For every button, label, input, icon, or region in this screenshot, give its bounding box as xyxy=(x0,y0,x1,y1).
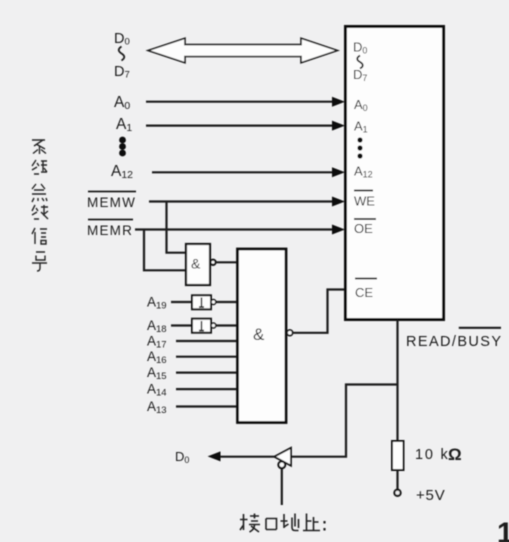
arrowhead A12 xyxy=(332,167,345,177)
wire A14 xyxy=(176,388,238,390)
wire MEMW xyxy=(149,200,334,202)
wire A15 xyxy=(176,372,238,374)
svg-text:A19: A19 xyxy=(147,295,167,312)
svg-text:D0: D0 xyxy=(114,31,130,48)
wire resistor to +5V terminal xyxy=(396,470,398,490)
char xian xyxy=(32,205,48,219)
svg-text:A18: A18 xyxy=(147,318,167,335)
wire U4 output xyxy=(219,456,274,458)
arrowhead A1 xyxy=(332,121,345,131)
wire MEMW tap down to gate U2 input 1 xyxy=(167,202,187,253)
wire enable down to interface-address label xyxy=(281,468,283,505)
svg-text:A15: A15 xyxy=(147,365,167,382)
memory chip U1 xyxy=(346,27,444,320)
char zong xyxy=(32,184,47,202)
svg-text:1: 1 xyxy=(497,518,509,542)
char zhi xyxy=(303,514,320,531)
svg-text:MEMW: MEMW xyxy=(87,195,136,210)
svg-text:D7: D7 xyxy=(114,64,130,81)
char hao xyxy=(32,252,47,271)
svg-text:READ/BUSY: READ/BUSY xyxy=(406,334,502,350)
svg-text:A13: A13 xyxy=(147,399,167,416)
wire A0 xyxy=(146,101,334,103)
char kou xyxy=(266,519,277,530)
wire branch to buffer input xyxy=(292,385,398,457)
svg-text:10 k: 10 k xyxy=(415,447,450,463)
caption: interface address (pseudo CJK strokes) xyxy=(240,514,325,533)
wire A17 xyxy=(176,340,238,342)
wire A1 xyxy=(146,124,334,126)
U5 output bubble xyxy=(211,300,216,305)
svg-text:A14: A14 xyxy=(147,382,167,399)
arrowhead D0 out xyxy=(208,451,221,461)
wire U6 to U3 xyxy=(216,324,238,326)
arrowhead A0 xyxy=(332,97,345,107)
squiggle between D0 and D7 (left) xyxy=(119,47,125,61)
wire MEMR xyxy=(135,228,334,230)
svg-text:A0: A0 xyxy=(114,94,130,112)
wire U2 output to U3 xyxy=(216,261,238,263)
svg-text:+5V: +5V xyxy=(416,487,446,504)
arrowhead MEMR xyxy=(332,225,345,235)
svg-text:MEMR: MEMR xyxy=(87,223,133,238)
svg-text:A16: A16 xyxy=(147,349,167,366)
wire U3 output to CE pin xyxy=(293,290,344,333)
svg-text:CE: CE xyxy=(355,285,373,300)
char xin xyxy=(32,228,47,244)
U3 output bubble xyxy=(287,330,293,336)
wire U5 to U3 xyxy=(216,301,238,303)
tri-state buffer U4 xyxy=(274,448,291,466)
NAND gate U2 (small &) xyxy=(186,244,210,285)
char tong xyxy=(32,160,47,174)
wire A16 xyxy=(176,356,238,358)
char xi (system) xyxy=(32,140,46,154)
colon xyxy=(323,521,325,531)
resistor R1 xyxy=(392,441,404,470)
ellipsis dots (chip address pins) xyxy=(357,137,362,158)
char di xyxy=(281,514,299,531)
svg-text:&: & xyxy=(253,325,265,344)
svg-text:D0: D0 xyxy=(175,449,189,465)
vertical caption: system bus signals (pseudo CJK strokes) xyxy=(32,140,48,271)
squiggle between D0 and D7 (chip) xyxy=(357,56,363,69)
U6 output bubble xyxy=(211,323,216,328)
svg-text:A17: A17 xyxy=(147,334,167,351)
wire MEMR tap down to gate U2 input 2 xyxy=(144,230,186,271)
wire A13 xyxy=(176,405,238,407)
svg-text:WE: WE xyxy=(354,194,375,209)
inverter U6 (A18) xyxy=(192,319,211,333)
svg-text:OE: OE xyxy=(354,221,373,236)
data bus double arrow xyxy=(148,38,338,63)
arrowhead MEMW xyxy=(332,197,345,207)
wire A12 xyxy=(152,171,334,173)
U2 output bubble xyxy=(210,260,215,265)
wire A18 to inverter xyxy=(171,324,192,326)
AND gate U3 (address decoder &) xyxy=(238,249,287,423)
U4 enable bubble xyxy=(278,461,285,468)
svg-text:Ω: Ω xyxy=(448,445,462,464)
+5V terminal circle xyxy=(394,490,400,496)
svg-text:&: & xyxy=(191,256,201,272)
inverter U5 (A19) xyxy=(192,295,211,309)
wire READY/BUSY vertical from chip bottom xyxy=(396,320,398,441)
ellipsis dots (left address column) xyxy=(119,137,126,157)
char jie xyxy=(240,514,260,533)
wire A19 to inverter xyxy=(171,301,192,303)
svg-text:A1: A1 xyxy=(116,116,132,134)
svg-text:A12: A12 xyxy=(111,163,133,181)
